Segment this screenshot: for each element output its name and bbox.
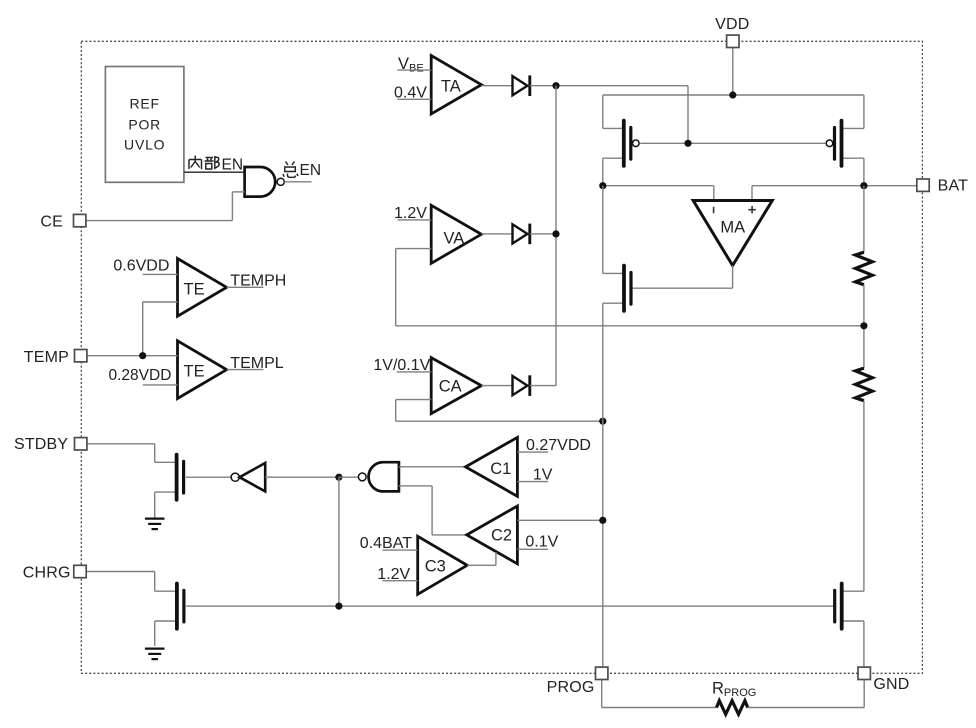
node TA/VA/CA diode-OR xyxy=(552,82,559,89)
wire PROG pin to RPROG xyxy=(602,680,717,708)
wire junction to NAND U2 bubble xyxy=(339,476,359,478)
svg-text:GND: GND xyxy=(873,676,909,693)
wire CA output xyxy=(481,385,512,387)
ground (STDBY stage) xyxy=(145,519,165,530)
wire TE1 inputs xyxy=(143,274,178,355)
wire Q5 source to GND pin xyxy=(863,621,865,667)
transistor Q1 (PMOS pass) xyxy=(603,121,639,166)
node logic junction xyxy=(335,474,342,481)
svg-text:0.4BAT: 0.4BAT xyxy=(360,535,412,552)
wire BAT rail / MA inputs xyxy=(603,186,917,201)
wire CE pin to NAND U1 lower input xyxy=(86,192,245,221)
svg-text:VDD: VDD xyxy=(715,16,749,33)
pin PROG xyxy=(547,667,608,696)
wire divider bottom to Q5 drain xyxy=(863,401,865,592)
transistor Q5 (PROG NMOS) xyxy=(835,584,864,629)
wire Q3 drain/source trunk to PROG xyxy=(602,186,604,667)
op-amp TA (trickle charge) xyxy=(431,56,481,114)
svg-text:TEMP: TEMP xyxy=(24,349,69,366)
pin STDBY xyxy=(14,436,87,453)
wire C3 output to C2 xyxy=(467,552,496,565)
svg-text:TE: TE xyxy=(184,363,205,381)
ground (CHRG stage) xyxy=(145,649,165,660)
wire logic down to CHRG gate wire xyxy=(338,477,340,606)
comparator C2 (termination) xyxy=(467,506,518,564)
resistor RPROG xyxy=(717,701,748,715)
wire Q4 source to ground xyxy=(154,492,156,517)
diode D2 at VA output xyxy=(513,224,530,245)
node CA sense junction xyxy=(599,418,606,425)
wire MA output to Q3 gate xyxy=(632,266,732,289)
svg-text:C1: C1 xyxy=(490,460,511,478)
wire C2 ref xyxy=(517,548,548,550)
svg-text:UVLO: UVLO xyxy=(124,137,165,153)
svg-text:C3: C3 xyxy=(425,558,446,576)
svg-text:BAT: BAT xyxy=(938,178,969,195)
svg-text:EN: EN xyxy=(222,156,244,173)
wire CHRG pin to Q6 drain xyxy=(86,572,155,592)
wire 内部EN from REF block to NAND U1 xyxy=(184,171,245,173)
svg-text:STDBY: STDBY xyxy=(14,436,68,453)
pin CE xyxy=(40,213,86,230)
transistor Q2 (PMOS pass) xyxy=(826,121,864,166)
wire Q6 source to ground xyxy=(154,621,156,646)
IC boundary dotted border xyxy=(81,41,922,673)
node gate bus junction xyxy=(684,140,691,147)
node CHRG gate junction xyxy=(335,603,342,610)
svg-text:C2: C2 xyxy=(491,527,512,545)
wire D2 to trunk xyxy=(530,233,556,235)
wire TEMPL output xyxy=(227,369,264,371)
wire VA inputs xyxy=(396,220,432,326)
comparator C1 (recharge) xyxy=(466,437,518,496)
node divider tap xyxy=(860,322,867,329)
wire C2 sense input to PROG trunk xyxy=(517,519,602,521)
svg-text:PROG: PROG xyxy=(547,679,595,696)
svg-text:MA: MA xyxy=(720,219,745,237)
pin TEMP xyxy=(24,349,87,366)
svg-text:CHRG: CHRG xyxy=(23,564,71,581)
wire TA output xyxy=(481,85,512,87)
diode D1 at TA output xyxy=(513,75,530,96)
pin BAT xyxy=(917,178,968,195)
wire D3 to trunk xyxy=(530,385,556,387)
comparator TE (temp high) xyxy=(178,259,227,317)
wire U2 bottom input to C2 xyxy=(399,486,467,535)
op-amp MA (current mirror amp) xyxy=(693,201,772,266)
wire divider mid xyxy=(396,285,864,368)
inverter U3 xyxy=(231,463,265,491)
node left PMOS drain xyxy=(599,182,606,189)
node VDD rail junction xyxy=(729,91,736,98)
comparator C3 (battery detect) xyxy=(418,536,468,594)
svg-text:TE: TE xyxy=(184,280,205,298)
label 总EN xyxy=(283,162,321,179)
op-amp CA (constant current) xyxy=(431,358,481,414)
transistor Q4 (STDBY open-drain) xyxy=(155,455,184,500)
wire C3 inputs xyxy=(382,550,417,581)
svg-text:0.6VDD: 0.6VDD xyxy=(113,257,169,274)
pin GND xyxy=(858,667,910,693)
wire PMOS gate bus xyxy=(640,142,825,144)
wire TEMP pin to TE2 xyxy=(87,355,178,357)
transistor Q3 (NMOS mirror) xyxy=(603,266,631,311)
wire NAND U2 output to inverter xyxy=(265,476,339,478)
wire VDD rail xyxy=(603,47,864,185)
svg-text:0.1V: 0.1V xyxy=(525,533,558,550)
wire STDBY pin to Q4 drain xyxy=(87,444,155,463)
label 内部EN xyxy=(189,156,243,174)
op-amp VA (constant voltage) xyxy=(431,205,481,263)
node TEMP junction xyxy=(139,352,146,359)
svg-text:TA: TA xyxy=(441,77,461,95)
wire D1 to PMOS gates xyxy=(530,86,688,144)
wire NAND U1 output 总EN xyxy=(284,181,311,183)
wire TA inputs xyxy=(398,70,432,99)
NAND gate U1 xyxy=(245,167,285,197)
svg-text:EN: EN xyxy=(300,162,322,179)
pin CHRG xyxy=(23,564,86,581)
svg-text:TEMPH: TEMPH xyxy=(230,273,286,290)
svg-text:CA: CA xyxy=(439,377,462,395)
svg-text:POR: POR xyxy=(128,116,161,132)
wire U2 top input to C1 xyxy=(399,466,466,468)
svg-text:0.28VDD: 0.28VDD xyxy=(109,367,172,384)
node PROG sense junction xyxy=(599,517,606,524)
node BAT junction xyxy=(860,182,867,189)
wire C1 refs xyxy=(517,452,548,482)
resistor R2 (divider bottom) xyxy=(855,368,872,401)
wire CA inputs xyxy=(396,372,603,421)
svg-text:VA: VA xyxy=(444,230,465,248)
wire RPROG to GND pin xyxy=(748,680,865,708)
svg-text:CE: CE xyxy=(40,213,63,230)
wire TEMPH output xyxy=(227,286,264,288)
block REF/POR/UVLO xyxy=(105,67,183,183)
svg-text:REF: REF xyxy=(129,96,159,112)
svg-text:RPROG: RPROG xyxy=(712,680,756,700)
diode D3 at CA output xyxy=(513,375,530,396)
node VA diode junction xyxy=(552,230,559,237)
wire VA output xyxy=(481,233,512,235)
NAND gate U2 (mirrored) xyxy=(358,462,399,491)
wire diode-OR trunk xyxy=(555,86,557,386)
transistor Q6 (CHRG open-drain) xyxy=(155,584,184,629)
comparator TE (temp low) xyxy=(178,341,227,399)
svg-text:VBE: VBE xyxy=(398,55,424,75)
wire gate bus CHRG/Q5 xyxy=(186,605,833,607)
svg-text:TEMPL: TEMPL xyxy=(230,355,283,372)
wire inverter to Q4 gate xyxy=(186,476,231,478)
resistor R1 (divider top) xyxy=(855,252,872,285)
wire BAT divider top xyxy=(863,186,865,253)
wire TE2 lower ref xyxy=(143,384,178,386)
pin VDD xyxy=(715,16,749,48)
